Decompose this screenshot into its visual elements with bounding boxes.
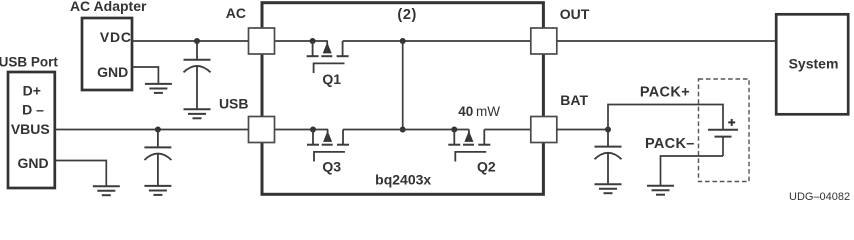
- wire PACK+ net: [608, 105, 723, 130]
- pin BAT of bq2403x: [531, 117, 557, 143]
- USB port source box: [8, 72, 55, 188]
- capacitor C2 on USB input: [144, 130, 171, 186]
- AC adapter source box: [82, 18, 132, 90]
- wire AC pin to Q1: [275, 40, 328, 42]
- svg-text:Q1: Q1: [322, 71, 341, 87]
- battery pack dashed enclosure: [699, 79, 750, 182]
- capacitor C3 on BAT: [595, 130, 622, 184]
- svg-text:(2): (2): [397, 7, 417, 23]
- wire USB port GND to ground: [55, 161, 107, 186]
- transistor Q2 (PMOS with body diode): [448, 130, 490, 162]
- node USB-cap junction: [155, 127, 161, 133]
- node Q1 source junction: [310, 38, 316, 44]
- ground below C2: [144, 186, 171, 195]
- svg-text:Q3: Q3: [322, 159, 341, 175]
- node BAT junction: [605, 127, 611, 133]
- pin USB of bq2403x: [249, 117, 275, 143]
- svg-text:VBUS: VBUS: [11, 121, 50, 137]
- pin OUT of bq2403x: [531, 28, 557, 54]
- node Q2 source junction: [451, 127, 457, 133]
- wire BAT pin to battery node: [557, 129, 608, 131]
- wire VBUS to USB pin: [55, 129, 249, 131]
- svg-text:System: System: [789, 56, 839, 72]
- svg-text:D –: D –: [22, 102, 44, 118]
- IC U1 bq2403x outline box: [262, 3, 543, 195]
- svg-text:D+: D+: [23, 83, 41, 99]
- wire PACK- net: [661, 156, 724, 185]
- svg-text:40 mW: 40 mW: [458, 104, 500, 119]
- wire OUT pin to System: [557, 40, 776, 42]
- pin AC of bq2403x: [249, 28, 275, 54]
- svg-text:PACK+: PACK+: [640, 85, 690, 101]
- svg-text:UDG–04082: UDG–04082: [789, 191, 850, 200]
- svg-text:AC: AC: [226, 5, 246, 21]
- node Q3 source junction: [310, 127, 316, 133]
- battery plus sign: [728, 119, 735, 126]
- node AC-cap junction: [194, 38, 200, 44]
- wire AC adapter GND to ground: [132, 67, 158, 83]
- battery pack cell BT1: [708, 130, 738, 156]
- wire VDC to AC pin: [132, 40, 249, 42]
- capacitor C1 on AC input: [184, 41, 211, 109]
- ground below C3: [595, 184, 622, 193]
- ground for AC adapter: [145, 84, 172, 93]
- svg-text:Q2: Q2: [477, 159, 496, 175]
- svg-text:VDC: VDC: [100, 29, 132, 45]
- svg-text:bq2403x: bq2403x: [375, 172, 431, 188]
- node bottom rail junction: [400, 127, 406, 133]
- svg-text:OUT: OUT: [560, 6, 590, 22]
- svg-text:PACK–: PACK–: [645, 136, 695, 152]
- svg-text:AC Adapter: AC Adapter: [70, 0, 147, 14]
- wire internal rail top to bottom: [402, 41, 404, 130]
- System load box: [776, 14, 848, 114]
- svg-text:GND: GND: [17, 155, 48, 171]
- wire Q3 to Q2: [343, 129, 469, 131]
- transistor Q1 (PMOS with body diode): [307, 41, 349, 73]
- svg-text:USB: USB: [219, 95, 249, 111]
- ground below C1: [184, 109, 211, 118]
- ground for PACK-: [647, 186, 674, 195]
- wire Q2 to BAT pin: [484, 129, 531, 131]
- transistor Q3 (PMOS with body diode): [307, 130, 349, 162]
- node top rail junction: [400, 38, 406, 44]
- svg-text:USB Port: USB Port: [0, 54, 58, 69]
- ground for USB port: [93, 186, 120, 195]
- svg-text:GND: GND: [97, 64, 128, 80]
- svg-text:BAT: BAT: [560, 92, 588, 108]
- wire USB pin to Q3: [275, 129, 329, 131]
- wire Q1 to OUT pin: [343, 40, 531, 42]
